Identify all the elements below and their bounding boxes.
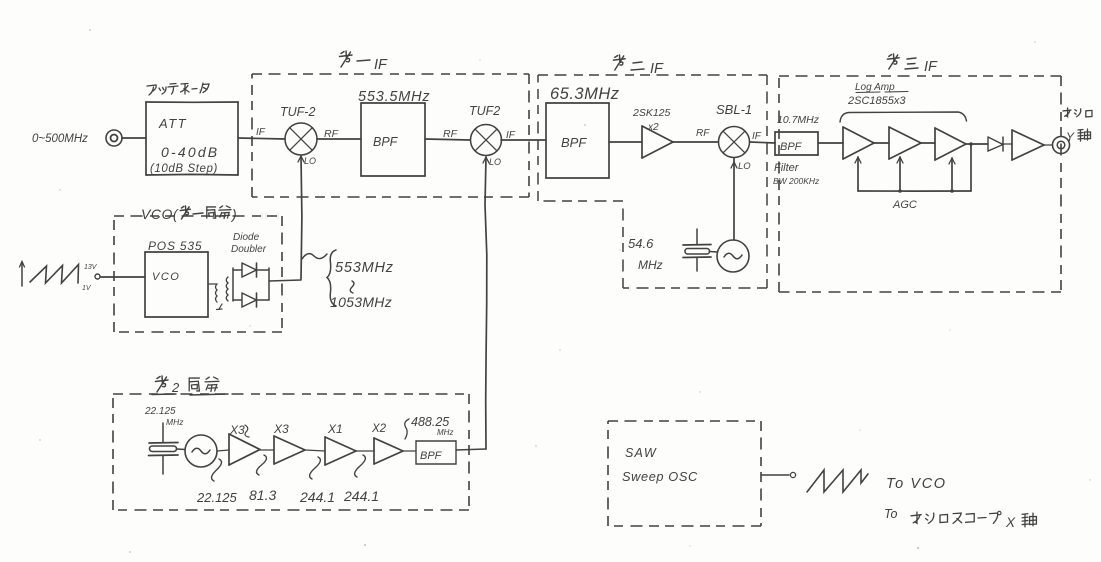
- svg-text:X2: X2: [371, 423, 387, 435]
- svg-text:IF: IF: [924, 59, 938, 75]
- svg-text:VCO: VCO: [152, 271, 180, 283]
- svg-text:13V: 13V: [84, 264, 98, 271]
- svg-text:IF: IF: [374, 57, 388, 73]
- svg-text:1053MHz: 1053MHz: [330, 294, 392, 310]
- svg-text:LO: LO: [738, 161, 751, 172]
- svg-text:BPF: BPF: [780, 141, 803, 153]
- svg-text:VCO(: VCO(: [141, 206, 179, 222]
- svg-text:x2: x2: [647, 122, 659, 133]
- svg-text:10.7MHz: 10.7MHz: [777, 114, 820, 126]
- svg-text:54.6: 54.6: [628, 236, 654, 251]
- svg-text:488.25: 488.25: [411, 415, 449, 429]
- svg-text:POS 535: POS 535: [148, 239, 202, 253]
- svg-text:244.1: 244.1: [343, 488, 379, 504]
- svg-text:Filter: Filter: [774, 162, 800, 174]
- svg-text:244.1: 244.1: [299, 489, 335, 505]
- svg-text:553.5MHz: 553.5MHz: [358, 89, 431, 105]
- svg-text:AGC: AGC: [892, 199, 917, 211]
- svg-text:BPF: BPF: [561, 135, 587, 150]
- svg-text:ATT: ATT: [158, 116, 187, 131]
- svg-text:2SK125: 2SK125: [632, 107, 671, 119]
- svg-text:X1: X1: [327, 422, 343, 436]
- svg-text:553MHz: 553MHz: [335, 260, 394, 276]
- svg-text:65.3MHz: 65.3MHz: [550, 85, 620, 103]
- svg-text:MHz: MHz: [166, 417, 184, 427]
- svg-text:IF: IF: [650, 61, 664, 77]
- svg-text:0-40dB: 0-40dB: [161, 144, 219, 160]
- svg-text:22.125: 22.125: [196, 490, 238, 505]
- svg-text:RF: RF: [443, 128, 458, 140]
- svg-text:Doubler: Doubler: [231, 244, 267, 255]
- svg-text:TUF-2: TUF-2: [280, 105, 315, 119]
- svg-text:LO: LO: [489, 157, 501, 167]
- svg-text:1V: 1V: [82, 285, 92, 292]
- svg-text:TUF2: TUF2: [469, 104, 500, 118]
- svg-text:SAW: SAW: [625, 446, 657, 460]
- svg-text:IF: IF: [256, 127, 266, 138]
- svg-text:22.125: 22.125: [144, 406, 176, 417]
- svg-text:2: 2: [171, 380, 180, 395]
- svg-text:RF: RF: [696, 128, 710, 139]
- svg-text:81.3: 81.3: [249, 487, 276, 503]
- svg-text:X: X: [1005, 515, 1016, 530]
- svg-text:0~500MHz: 0~500MHz: [32, 133, 88, 145]
- svg-text:Sweep OSC: Sweep OSC: [622, 469, 698, 484]
- svg-text:IF: IF: [752, 131, 762, 142]
- svg-text:BW 200KHz: BW 200KHz: [773, 176, 820, 186]
- svg-text:Diode: Diode: [233, 232, 260, 243]
- svg-text:LO: LO: [304, 156, 316, 166]
- svg-text:BPF: BPF: [420, 450, 443, 462]
- svg-text:Y: Y: [1066, 130, 1075, 144]
- svg-text:MHz: MHz: [638, 258, 663, 272]
- svg-text:X3: X3: [273, 422, 289, 436]
- svg-text:X3: X3: [229, 423, 245, 437]
- svg-text:To: To: [884, 507, 897, 521]
- svg-text:(10dB Step): (10dB Step): [150, 163, 218, 175]
- svg-text:SBL-1: SBL-1: [716, 102, 752, 117]
- svg-text:MHz: MHz: [437, 428, 453, 437]
- svg-text:BPF: BPF: [373, 135, 399, 149]
- svg-text:2SC1855x3: 2SC1855x3: [847, 95, 906, 107]
- svg-text:Log Amp: Log Amp: [855, 82, 895, 93]
- svg-text:To VCO: To VCO: [886, 476, 947, 492]
